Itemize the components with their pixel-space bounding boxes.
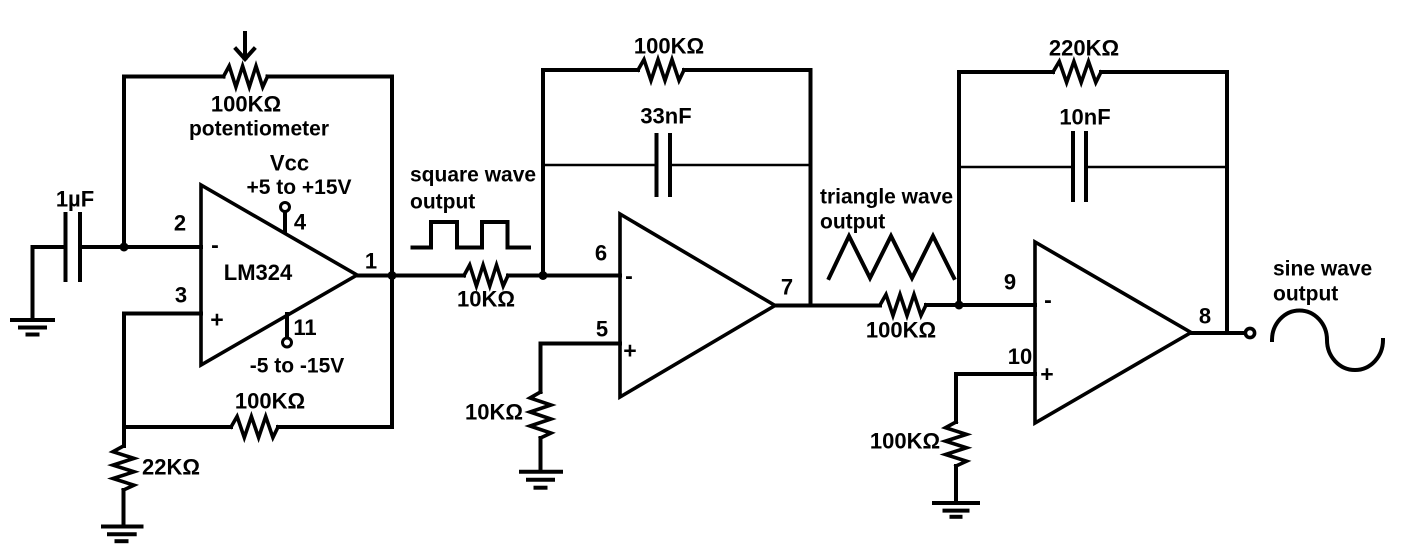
pin 3 wire: [124, 312, 201, 316]
resistor R7 100K series: [880, 295, 926, 316]
wire U1A output: [357, 274, 464, 278]
wire R9 to ground: [954, 466, 958, 502]
svg-text:11: 11: [293, 315, 316, 340]
capacitor C3 10nF plates: [1073, 133, 1086, 200]
resistor R2 100K bottom feedback: [124, 425, 231, 429]
svg-text:7: 7: [781, 275, 793, 300]
wire feedback loop right vertical U3: [1225, 72, 1229, 333]
svg-text:sine wave: sine wave: [1273, 258, 1372, 281]
svg-text:+: +: [1040, 361, 1053, 387]
resistor R9 100K to ground: [946, 422, 967, 466]
svg-text:10: 10: [1008, 344, 1032, 369]
svg-text:8: 8: [1199, 304, 1211, 329]
resistor R4 10K series: [464, 265, 508, 286]
wire down to ground from C1: [31, 247, 35, 319]
wire feedback loop right vertical U2: [809, 70, 813, 306]
square wave symbol: [413, 222, 530, 248]
potentiometer wiper arrow: [236, 33, 254, 59]
wire U1B output: [775, 304, 880, 308]
wire pot loop right vertical: [390, 77, 394, 428]
svg-text:+: +: [210, 307, 223, 333]
svg-text:output: output: [1273, 283, 1338, 306]
svg-text:1µF: 1µF: [56, 187, 94, 212]
potentiometer R1 100K top leads and zigzag: [124, 75, 224, 79]
capacitor C2 33nF wires: [543, 164, 811, 166]
resistor R8 220K top feedback U3: [959, 70, 1053, 74]
wire U1C output: [1191, 331, 1243, 335]
wire feedback loop left vertical U2: [541, 70, 545, 276]
svg-text:-: -: [211, 232, 219, 258]
svg-text:1: 1: [365, 249, 377, 274]
svg-text:triangle wave: triangle wave: [820, 186, 953, 209]
svg-text:22KΩ: 22KΩ: [142, 455, 200, 480]
svg-text:10KΩ: 10KΩ: [457, 287, 515, 312]
pin 10 wire: [956, 372, 1035, 376]
svg-text:output: output: [410, 191, 475, 214]
capacitor C2 33nF plates: [657, 135, 671, 195]
wire pin3 node down: [122, 314, 126, 428]
node B junction dot: [539, 271, 548, 280]
svg-text:33nF: 33nF: [640, 104, 691, 129]
svg-text:4: 4: [294, 210, 307, 235]
svg-text:100KΩ: 100KΩ: [870, 429, 940, 454]
wire pin10 down: [954, 374, 958, 422]
svg-text:-5 to -15V: -5 to -15V: [250, 355, 345, 378]
op-amp U1C triangle: [1035, 242, 1191, 423]
capacitor C3 10nF wires: [959, 166, 1227, 168]
ground G4: [934, 503, 978, 517]
svg-text:potentiometer: potentiometer: [189, 118, 329, 141]
wire R6 to ground: [539, 438, 543, 470]
triangle wave symbol: [829, 236, 954, 278]
svg-text:LM324: LM324: [224, 260, 293, 285]
svg-text:+5 to +15V: +5 to +15V: [246, 176, 351, 199]
svg-text:100KΩ: 100KΩ: [211, 92, 281, 117]
svg-text:220KΩ: 220KΩ: [1049, 36, 1119, 61]
svg-text:100KΩ: 100KΩ: [866, 318, 936, 343]
svg-text:5: 5: [596, 317, 608, 342]
resistor R3 22K vertical: [113, 446, 134, 490]
svg-text:+: +: [623, 338, 636, 364]
svg-text:100KΩ: 100KΩ: [634, 34, 704, 59]
op-amp U1B triangle: [620, 214, 775, 397]
svg-text:10nF: 10nF: [1059, 105, 1110, 130]
capacitor C1 1uF plates: [66, 214, 81, 280]
svg-text:10KΩ: 10KΩ: [465, 400, 523, 425]
wire feedback loop left vertical U3: [957, 72, 961, 305]
svg-text:100KΩ: 100KΩ: [235, 389, 305, 414]
op-amp U1A triangle: [201, 185, 357, 365]
capacitor C1 1uF left lead wire: [33, 245, 65, 249]
pin 11 stub and terminal: [285, 314, 289, 338]
svg-text:-: -: [625, 263, 633, 289]
svg-text:square wave: square wave: [410, 164, 536, 187]
pin 5 wire: [541, 342, 621, 346]
resistor R6 10K to ground: [530, 392, 551, 438]
wire R4 to pin6: [508, 274, 620, 278]
node A junction dot pin2: [120, 243, 129, 252]
wire R7 to pin9: [926, 303, 1035, 307]
sine wave symbol: [1272, 311, 1383, 371]
svg-text:3: 3: [175, 283, 187, 308]
node C junction dot: [955, 301, 964, 310]
ground G1: [12, 320, 53, 335]
output terminal circle: [1245, 328, 1254, 337]
svg-text:output: output: [820, 211, 885, 234]
svg-text:2: 2: [174, 211, 186, 236]
wire from C1 to pin2 node: [80, 245, 201, 249]
pin 4 stub and terminal: [283, 212, 287, 232]
svg-text:9: 9: [1004, 270, 1016, 295]
svg-text:Vcc: Vcc: [270, 151, 309, 176]
node output U1A junction dot: [388, 271, 397, 280]
resistor R5 100K top feedback U2: [543, 68, 638, 72]
ground G3: [521, 472, 561, 488]
ground G2: [103, 527, 142, 542]
svg-text:-: -: [1044, 287, 1052, 313]
wire pin5 down: [539, 344, 543, 393]
svg-text:6: 6: [595, 241, 607, 266]
wire pot loop left vertical: [122, 77, 126, 248]
